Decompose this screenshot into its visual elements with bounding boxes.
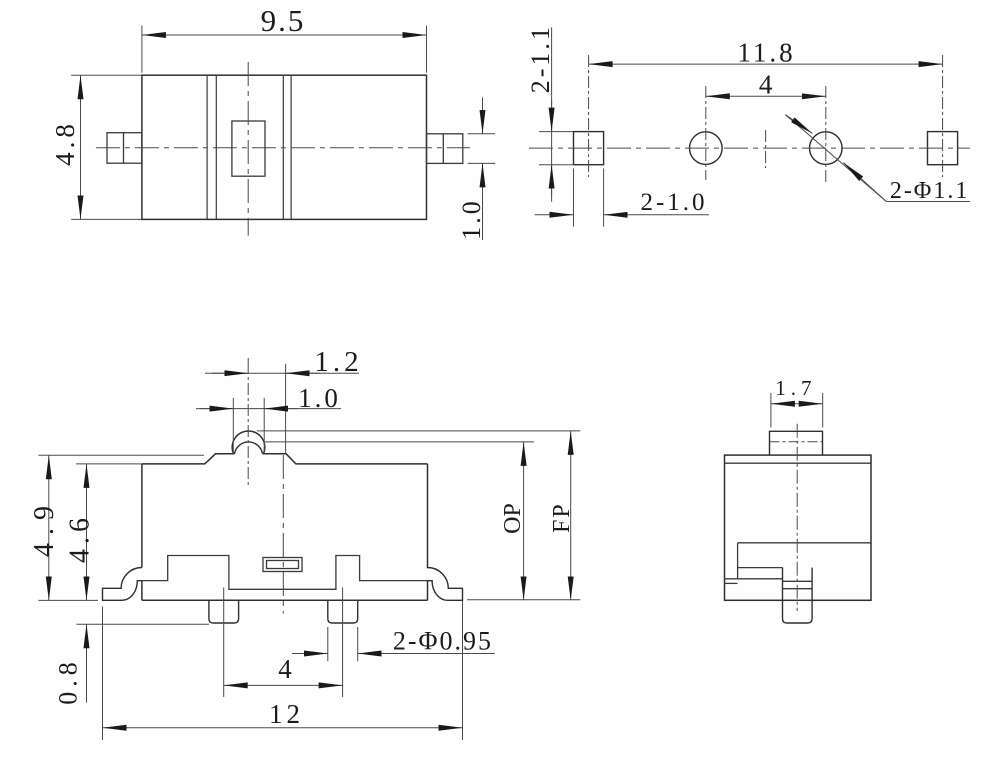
dimension 1.0 front <box>196 398 341 454</box>
svg-text:4: 4 <box>278 654 292 684</box>
front view right foot <box>428 568 463 601</box>
dimension 1.0 top view <box>468 97 495 240</box>
top view vertical centerline <box>247 62 249 236</box>
dimension 4 footprint <box>706 95 826 97</box>
svg-text:12: 12 <box>269 699 304 729</box>
svg-text:4: 4 <box>759 69 773 99</box>
dimension 1.7 <box>771 393 823 428</box>
front view right boss pin <box>328 600 358 623</box>
svg-text:4.8: 4.8 <box>50 120 80 166</box>
dimension 2-PHI0.95 <box>292 627 495 661</box>
svg-text:11.8: 11.8 <box>737 38 795 68</box>
dimension 2-1.0 <box>535 168 709 226</box>
svg-text:4.9: 4.9 <box>29 498 60 557</box>
dimension FP <box>257 431 580 600</box>
dimension 2-1.1 <box>539 27 574 201</box>
dimension 9.5 <box>142 26 427 73</box>
side view top band <box>725 462 872 464</box>
front view stem dome inner arc <box>235 442 263 454</box>
svg-text:0.8: 0.8 <box>53 657 82 705</box>
front view body centerline <box>282 455 284 614</box>
top view body outline <box>142 75 427 219</box>
side view button OP dashed line <box>770 441 823 443</box>
svg-text:2-Φ0.95: 2-Φ0.95 <box>393 627 493 656</box>
front view button centerline <box>247 362 249 485</box>
side view boss pin <box>783 568 813 623</box>
top view left tab <box>107 133 142 164</box>
leader 2-PHI1.1 <box>785 115 970 202</box>
footprint vertical centerlines <box>589 55 943 182</box>
dimension OP <box>264 442 534 600</box>
svg-text:2-1.0: 2-1.0 <box>640 189 707 216</box>
footprint horizontal centerline <box>529 147 970 149</box>
side view body outline <box>725 455 872 600</box>
side view button <box>770 431 823 455</box>
svg-text:9.5: 9.5 <box>261 3 306 38</box>
front view center slot rectangle <box>263 558 302 572</box>
svg-text:FP: FP <box>549 502 575 533</box>
dimension 12 <box>103 601 463 740</box>
footprint hole circle right <box>810 132 843 165</box>
dimension 1.2 <box>205 358 359 454</box>
svg-text:2-Φ1.1: 2-Φ1.1 <box>890 178 970 204</box>
svg-text:4.6: 4.6 <box>65 513 96 563</box>
side view interior step lines <box>725 543 872 589</box>
side view centerline <box>796 424 798 611</box>
svg-text:2-1.1: 2-1.1 <box>526 24 555 93</box>
footprint left pad square <box>574 132 604 165</box>
front view body outline <box>142 431 428 600</box>
top view right tab <box>427 134 463 164</box>
front view left foot <box>103 568 142 601</box>
footprint right pad square <box>928 132 958 165</box>
svg-text:OP: OP <box>500 503 526 534</box>
footprint hole circle left <box>690 132 723 165</box>
top view horizontal centerline <box>96 147 470 149</box>
dimension 0.8 <box>76 624 209 702</box>
top view center stem rectangle <box>232 121 265 176</box>
front view interior steps <box>142 556 428 590</box>
svg-text:1.7: 1.7 <box>775 376 816 400</box>
dimension 11.8 <box>589 63 943 65</box>
dimension 4.8 <box>71 75 142 219</box>
dimension 4.6 <box>76 464 142 601</box>
top view internal parting lines <box>207 75 291 219</box>
svg-text:1.0: 1.0 <box>457 198 486 240</box>
svg-text:1.0: 1.0 <box>298 383 341 413</box>
front view boss centerlines <box>224 588 343 698</box>
svg-text:1.2: 1.2 <box>314 346 362 378</box>
dimension 4.9 <box>38 455 204 600</box>
dimension 4 front <box>224 684 343 686</box>
front view left boss pin <box>209 600 239 623</box>
